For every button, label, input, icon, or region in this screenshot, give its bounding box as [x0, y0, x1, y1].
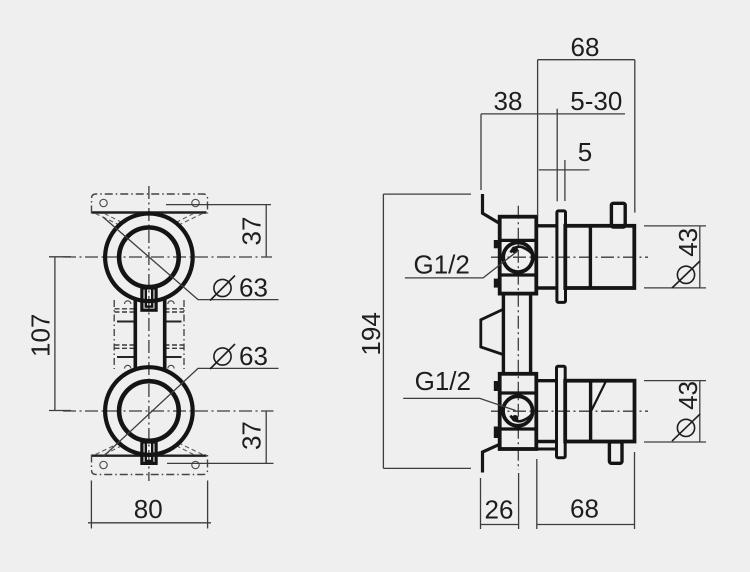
trim circle top (outer): [105, 213, 193, 301]
outlet stub top circle: [142, 288, 156, 310]
handle lever diagonal lower: [592, 381, 607, 411]
hidden side tab solid edges right: [165, 322, 182, 358]
dimension 26: [481, 473, 519, 529]
body column right edge: [163, 298, 167, 371]
svg-text:68: 68: [570, 494, 599, 524]
svg-text:37: 37: [237, 421, 267, 450]
centerline horizontal bottom circle: [63, 410, 274, 412]
G1/2 port circle lower: [503, 396, 533, 426]
svg-text:63: 63: [239, 341, 268, 371]
centerline vertical axis right view: [517, 206, 519, 470]
trim circle bottom (outer): [105, 367, 193, 455]
body column side view: [502, 294, 505, 374]
wall bracket bottom hook: [483, 445, 499, 473]
chamfer lines bottom-right: [176, 442, 203, 454]
cartridge sleeve upper: [537, 224, 558, 227]
wall bracket middle profile: [481, 309, 503, 354]
centerline horizontal upper valve: [491, 256, 648, 258]
svg-text:68: 68: [571, 32, 600, 62]
dimension 37 bottom: [167, 411, 274, 463]
dimension 37 top: [166, 205, 271, 257]
trim plate upper (edge view): [557, 211, 566, 303]
svg-text:194: 194: [356, 312, 386, 355]
dimension 68 top: [538, 60, 635, 216]
handle button upper: [611, 203, 625, 227]
inlet tabs upper valve: [494, 240, 500, 248]
screw hole bottom-right: [192, 461, 199, 468]
handle circle bottom (inner): [119, 381, 179, 441]
svg-text:G1/2: G1/2: [414, 250, 470, 280]
mounting plate bottom (phantom outline): [92, 455, 208, 475]
dimension 5-30: [538, 109, 625, 202]
hidden side tab solid edges left: [117, 322, 134, 358]
port detail upper: [511, 247, 532, 253]
port detail lower: [511, 415, 532, 421]
centerline horizontal top circle: [63, 256, 272, 258]
hidden side tab lines left: [115, 309, 135, 349]
hidden side tab lines right: [165, 309, 185, 349]
valve block lower: [500, 374, 537, 449]
diameter diagonal top circle + leader: [103, 217, 279, 300]
dimension 80: [88, 481, 211, 529]
label diam 43 lower: [672, 381, 703, 441]
dimension 107: [49, 257, 71, 411]
dimension diam 43 lower: [644, 381, 706, 442]
hidden housing edge right: [183, 300, 185, 369]
svg-text:26: 26: [485, 495, 514, 525]
chamfer lines top-left: [96, 214, 123, 226]
svg-text:63: 63: [239, 273, 268, 303]
handle upper: [565, 226, 634, 288]
leader G1/2 lower: [403, 398, 515, 410]
svg-text:38: 38: [494, 86, 523, 116]
outlet stub bottom circle: [142, 442, 156, 463]
wall bracket top hook: [483, 194, 499, 223]
plate top inner edge (solid): [92, 211, 207, 213]
svg-text:5: 5: [578, 137, 592, 167]
mounting plate top (phantom outline): [92, 194, 208, 214]
handle lower: [565, 381, 634, 442]
trim plate lower (edge view): [557, 366, 566, 458]
screw hole top-left: [100, 199, 107, 206]
hidden housing edge left: [113, 300, 115, 369]
inlet tabs lower valve: [494, 381, 500, 391]
svg-text:107: 107: [25, 314, 55, 357]
handle tab lower: [609, 442, 622, 463]
svg-text:37: 37: [237, 217, 267, 246]
svg-text:43: 43: [673, 228, 703, 257]
handle circle top (inner): [119, 227, 179, 287]
svg-text:80: 80: [134, 494, 163, 524]
chamfer lines top-right: [176, 214, 203, 226]
label diam 63 bottom: [210, 341, 268, 371]
label diam 43 upper: [672, 228, 703, 288]
leader G1/2 upper: [405, 252, 517, 278]
chamfer lines bottom-left: [96, 442, 123, 454]
dimension 5: [539, 160, 590, 201]
dimension 68 bottom: [537, 452, 635, 529]
body column left edge: [134, 298, 138, 371]
svg-text:G1/2: G1/2: [415, 366, 471, 396]
plate bottom inner edge (solid): [92, 455, 207, 457]
centerline horizontal lower valve: [491, 410, 648, 412]
cartridge sleeve lower: [537, 379, 557, 382]
dimension 194: [383, 194, 471, 468]
dimension diam 43 upper: [644, 226, 706, 288]
dimension 38: [481, 114, 538, 190]
G1/2 port circle upper: [503, 242, 533, 272]
svg-text:5-30: 5-30: [570, 86, 622, 116]
screw hole bottom-left: [100, 461, 107, 468]
screw hole top-right: [192, 199, 199, 206]
centerline vertical axis left view: [148, 186, 150, 481]
hidden hole arcs: [125, 301, 175, 369]
diameter diagonal bottom circle + leader: [103, 368, 278, 456]
lower block bottom extension: [536, 448, 556, 451]
svg-text:43: 43: [673, 381, 703, 410]
label diam 63 top: [210, 273, 268, 303]
valve block upper: [500, 217, 537, 294]
